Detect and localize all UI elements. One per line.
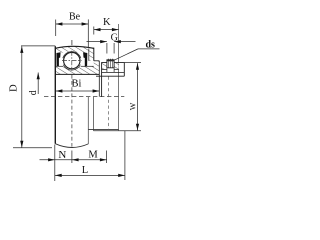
left seal [56, 52, 60, 66]
raceway boundary arc (upper) [63, 52, 81, 58]
bearing right face [93, 48, 95, 61]
hidden screw hole (dashed) [108, 77, 110, 130]
svg-text:K: K [103, 17, 111, 28]
L dimension [124, 131, 126, 180]
Bi dimension [56, 90, 100, 92]
inner ring bottom (bore) line [55, 73, 99, 75]
outer ring OD arc [55, 46, 94, 48]
svg-text:ds: ds [145, 39, 155, 50]
collar outline below axis [93, 97, 95, 131]
G dimension [106, 43, 108, 54]
inner ring extension ledge [94, 60, 100, 62]
outer ring inner shoulder line [88, 49, 90, 61]
set screw ds [107, 59, 114, 68]
N and M dimensions [54, 145, 56, 182]
eccentric locking collar section [96, 58, 124, 97]
svg-text:M: M [88, 149, 98, 160]
ball bearing [64, 52, 80, 68]
W dimension [124, 62, 141, 64]
centerline tick above arc [71, 40, 73, 45]
W bottom extension line [94, 130, 142, 132]
outer ring right face below axis [87, 97, 89, 144]
d dimension [37, 73, 39, 95]
vertical centerline (dashed) [71, 75, 73, 147]
raceway boundary arc (lower) [63, 65, 80, 70]
K dimension [93, 27, 95, 35]
ds leader line [113, 49, 138, 61]
ball crosshair centerlines [62, 51, 82, 71]
screw hole walls [106, 68, 108, 73]
raceway white gap around ball [62, 51, 81, 70]
svg-text:d: d [28, 90, 39, 95]
collar bottom edge [88, 128, 118, 130]
svg-text:L: L [82, 165, 88, 176]
inner ring band top edges [55, 65, 63, 67]
svg-text:Bi: Bi [72, 78, 82, 89]
horizontal axis line (dashed) [44, 96, 124, 98]
svg-text:D: D [9, 84, 20, 92]
svg-text:W: W [128, 102, 137, 110]
svg-text:G: G [111, 32, 118, 43]
inner ring right face [98, 61, 100, 97]
outer ring top section (hatched) [55, 46, 94, 61]
bearing left face [54, 46, 56, 144]
Be dimension [55, 20, 57, 37]
D dimension [21, 45, 55, 47]
inner ring band (hatched) [55, 61, 99, 75]
bottom outline: OD arc (lower half, outline view) [55, 144, 88, 148]
eccentric step line / K right extension [118, 24, 120, 131]
right seal [83, 52, 87, 66]
svg-text:Be: Be [69, 12, 81, 23]
svg-text:N: N [58, 149, 66, 161]
